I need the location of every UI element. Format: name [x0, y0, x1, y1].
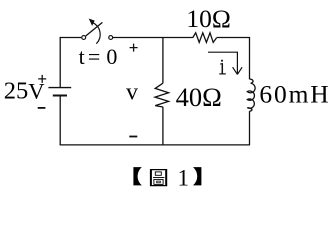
caption right bracket: [193, 167, 201, 185]
label - polarity of source: [38, 107, 46, 109]
wire node A down to resistor R2: [162, 38, 164, 84]
inductor L1 coil 60mH: [247, 79, 255, 111]
caption character tu (figure): [150, 169, 167, 186]
svg-text:25V: 25V: [4, 78, 45, 105]
svg-text:60mH: 60mH: [259, 80, 330, 109]
caption left bracket: [133, 167, 141, 185]
wire from inductor down to bottom-right corner: [249, 111, 251, 145]
switch S1 right terminal: [109, 36, 113, 40]
label i: [219, 60, 226, 74]
voltage source V1 battery top plate (+): [48, 87, 71, 89]
svg-text:v: v: [126, 79, 138, 105]
node A junction to resistor R1 wire: [163, 37, 193, 39]
switch S1 closing arrowhead: [89, 19, 95, 26]
current arrow i (bent: horizontal then down): [208, 52, 242, 74]
voltage source V1 battery bottom plate (-): [53, 95, 67, 97]
label - polarity of v: [129, 136, 137, 138]
switch S1 left terminal: [82, 36, 86, 40]
svg-text:t = 0: t = 0: [79, 44, 118, 69]
wire left vertical from top corner down to battery: [59, 37, 61, 87]
switch S1 closing motion arc: [93, 23, 101, 44]
wire from R1 to top-right corner and down to inductor: [217, 38, 250, 80]
wire from switch right terminal to node A: [113, 37, 163, 39]
resistor R2 40 ohm zigzag: [155, 83, 169, 107]
wire from resistor R2 down to bottom wire: [162, 107, 164, 145]
svg-text:10Ω: 10Ω: [186, 4, 230, 33]
label + polarity of v: [130, 44, 138, 52]
svg-text:1: 1: [178, 166, 190, 191]
label + polarity of source: [38, 75, 46, 83]
switch S1 blade (open): [86, 22, 103, 36]
resistor R1 10 ohm zigzag: [193, 33, 217, 43]
wire top-left horizontal from corner to switch terminal: [60, 37, 81, 39]
bottom wire from bottom-right corner to bottom-left corner: [60, 144, 250, 146]
wire from battery negative down to bottom-left corner: [59, 96, 61, 146]
svg-text:40Ω: 40Ω: [176, 82, 222, 112]
